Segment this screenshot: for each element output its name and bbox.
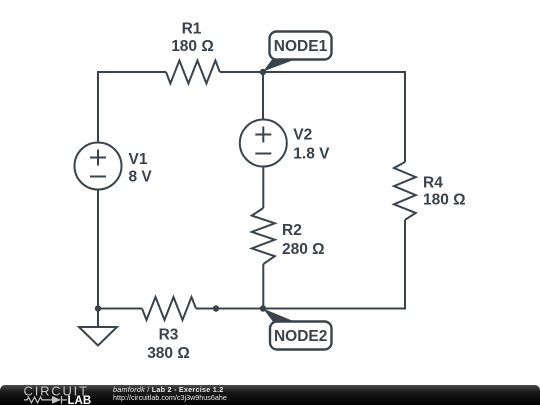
svg-text:R2: R2 [282, 222, 302, 239]
svg-text:NODE1: NODE1 [274, 38, 328, 55]
svg-text:LAB: LAB [68, 395, 92, 405]
svg-text:R1: R1 [182, 21, 202, 38]
wire R2 bottom to node B [262, 264, 264, 309]
svg-text:380 Ω: 380 Ω [147, 345, 190, 362]
wire top-left horizontal from V1 branch to R1 [98, 72, 166, 143]
svg-text:8 V: 8 V [129, 168, 153, 185]
resistor R4 [394, 162, 416, 220]
wire V2 bottom to R2 top [262, 167, 264, 209]
svg-text:NODE2: NODE2 [274, 328, 327, 345]
svg-text:180 Ω: 180 Ω [423, 192, 466, 209]
wire left rail bottom-left corner up to V1 [97, 190, 99, 309]
wire node A to top-right corner and down right rail to R4 [263, 72, 405, 162]
voltage source V2 [240, 120, 287, 167]
footer bar [0, 385, 540, 405]
resistor R2 [252, 208, 275, 264]
voltage source V1 [75, 143, 122, 190]
wire R3 left to bottom-left corner [98, 308, 142, 310]
svg-text:R4: R4 [423, 174, 443, 191]
wire node B to junction dot [216, 308, 263, 310]
wire R4 bottom down right rail to bottom-right corner then left to node B [263, 220, 405, 309]
svg-text:R3: R3 [159, 327, 179, 344]
node NODE2 flag tail [263, 309, 295, 322]
junction node B dot [260, 305, 266, 311]
svg-text:180 Ω: 180 Ω [171, 38, 214, 55]
junction node A dot [260, 69, 266, 75]
node NODE2 flag box [270, 322, 332, 350]
svg-text:280 Ω: 280 Ω [282, 241, 325, 258]
resistor R1 [166, 61, 220, 84]
footer credit text [113, 386, 227, 403]
resistor R3 [142, 297, 196, 320]
svg-text:1.8 V: 1.8 V [293, 145, 330, 162]
junction dot bottom wire [213, 305, 219, 311]
junction dot ground [95, 305, 101, 311]
CircuitLab logo [23, 385, 103, 405]
node NODE1 flag box [270, 32, 332, 60]
node NODE1 flag tail [263, 60, 295, 72]
wire R1 right to node A [220, 71, 263, 73]
svg-text:V2: V2 [293, 126, 312, 143]
svg-text:V1: V1 [129, 151, 148, 168]
wire node A down to V2 [262, 72, 264, 120]
wire junction to R3 right end [196, 308, 216, 310]
ground stub wire [97, 309, 99, 328]
ground [79, 327, 117, 346]
